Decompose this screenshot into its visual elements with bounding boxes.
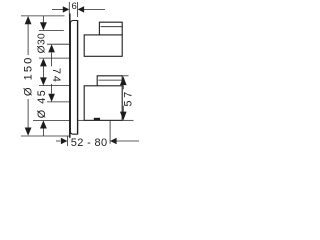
indicator tab under bottom knob (94, 118, 100, 121)
svg-text:Ø 150: Ø 150 (23, 56, 35, 96)
dim 57 line segments (122, 85, 124, 89)
dim 6 line + tails (52, 8, 63, 10)
arrow up at 45 dim bottom (40, 120, 47, 128)
dim 150 line (27, 24, 29, 55)
top knob grip step (99, 22, 122, 35)
svg-text:7: 7 (50, 68, 62, 74)
svg-text:52 - 80: 52 - 80 (71, 137, 108, 149)
bottom knob grip step (97, 76, 122, 86)
dim 30 ext bottom (39, 57, 69, 59)
dim 52-80 right tail (116, 140, 139, 142)
long ext line at knob bottom (33, 119, 70, 121)
arrow left at 52-80 dim (110, 138, 117, 144)
dim 150 ext top (21, 15, 65, 17)
arrow up at 30 dim bottom (40, 58, 47, 66)
arrow down at 74 dim bottom (48, 94, 55, 102)
dim 74 line (51, 53, 53, 67)
arrow down at 57 dim bottom (120, 112, 127, 121)
dim 30/45 middle tail (42, 66, 44, 78)
arrow down at 150 dim (25, 128, 32, 136)
arrow down at 45 dim top (40, 77, 47, 85)
wall line (69, 14, 71, 138)
dim 150 ext bottom (21, 135, 69, 137)
plate front face line (77, 20, 79, 134)
dim 52-80 right ref line (109, 120, 111, 143)
dim 30/45 shared line top tail (42, 16, 44, 22)
wall plate side view (70, 21, 77, 135)
dim 45 bottom tail (42, 128, 44, 136)
arrow down at 30 dim top (40, 22, 47, 30)
bottom knob step inner line (98, 79, 122, 81)
arrow right at 6 dim (63, 6, 70, 12)
arrow up at 150 dim (25, 16, 32, 24)
dim 57 ext top (122, 75, 128, 77)
svg-text:57: 57 (123, 89, 135, 107)
dim 45 ext top (39, 85, 69, 87)
dim 74 ext bottom (47, 101, 70, 103)
dim 30 ext top (39, 29, 64, 31)
dim 74 ext top (47, 43, 70, 45)
arrow left at 6 dim (78, 6, 85, 12)
dim 52-80 left ext line (66, 136, 68, 146)
arrow up at 74 dim top (48, 44, 55, 52)
top knob step inner line (101, 26, 123, 28)
top knob body (84, 35, 122, 56)
svg-text:4: 4 (50, 76, 62, 82)
svg-text:Ø30: Ø30 (37, 33, 48, 53)
arrow right at 52-80 dim (61, 138, 68, 144)
svg-text:6: 6 (72, 1, 77, 12)
bottom knob body (84, 86, 122, 121)
svg-text:Ø 45: Ø 45 (36, 89, 48, 118)
arrow up at 57 dim top (120, 76, 127, 85)
dim 6 extension lines (68, 2, 70, 17)
dim 52-80 left tail (56, 140, 61, 142)
